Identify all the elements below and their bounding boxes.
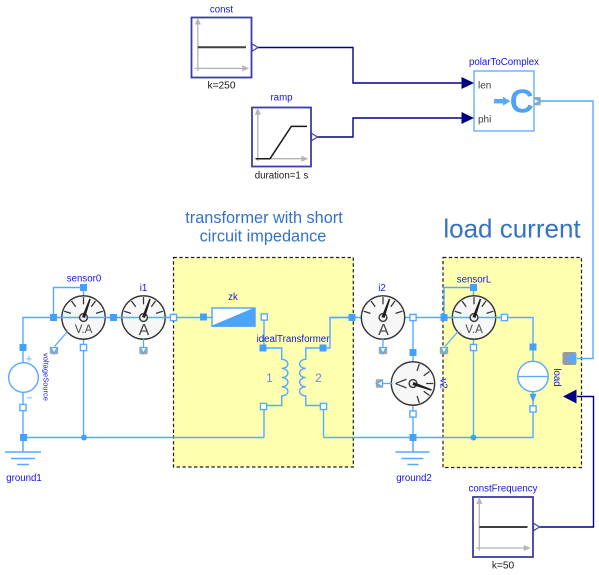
wire stub load bottom <box>532 392 534 407</box>
svg-text:i2: i2 <box>378 283 386 294</box>
junction v2/ground2 <box>410 434 417 441</box>
wire stub v2 bottom <box>412 404 414 411</box>
svg-text:idealTransformer: idealTransformer <box>257 334 331 345</box>
sensorL complex output connector <box>440 347 448 354</box>
svg-text:transformer with short: transformer with short <box>185 209 343 227</box>
svg-text:A: A <box>378 322 389 339</box>
wire sensorL bottom to rail <box>473 348 475 438</box>
block constFrequency <box>473 497 540 557</box>
svg-text:const: const <box>210 5 233 16</box>
svg-text:voltageSource: voltageSource <box>42 353 51 401</box>
svg-text:+: + <box>26 353 32 365</box>
pin transformer secondary bottom <box>320 403 326 409</box>
pin voltageSource + <box>20 344 27 351</box>
wire through i1 <box>114 317 175 319</box>
power sensor sensorL <box>452 296 495 339</box>
wire idealTransformer secondary to main row <box>325 318 352 349</box>
wire through sensorL <box>444 317 505 319</box>
junction sensorL/rail <box>471 435 477 441</box>
wire stub load top <box>532 347 534 362</box>
block polarToComplex U1 <box>474 71 534 131</box>
pin i2 left <box>349 314 356 321</box>
svg-text:C: C <box>510 83 534 120</box>
wire transformer primary bottom to rail <box>263 406 265 438</box>
load frequency input connector <box>563 390 577 404</box>
ground2 <box>396 438 430 465</box>
junction sensor0/rail <box>81 435 87 441</box>
load complex input connector <box>563 352 577 365</box>
wire v2 top <box>412 318 414 353</box>
pin sensorL bottom <box>470 344 476 350</box>
svg-text:i1: i1 <box>140 283 148 294</box>
wire stub sensor0 bottom <box>83 338 85 345</box>
svg-text:2: 2 <box>315 371 322 385</box>
i1 complex output connector <box>139 347 147 354</box>
v2 complex output connector <box>376 379 383 387</box>
wire polarToComplex to load complex input <box>540 101 594 359</box>
sensor0 complex output lead <box>55 332 68 347</box>
wire sensorL voltage tap <box>444 288 474 318</box>
wire main row left: voltageSource to zk <box>23 318 212 348</box>
svg-text:zk: zk <box>228 292 238 303</box>
pin voltageSource - <box>20 404 26 410</box>
wire stub sensorL top <box>473 288 475 297</box>
pin zk left <box>200 314 207 321</box>
svg-text:k=250: k=250 <box>207 81 235 92</box>
svg-text:phi: phi <box>478 115 491 126</box>
svg-text:sensorL: sensorL <box>457 275 492 286</box>
input connector len <box>462 77 475 89</box>
wire stub voltageSource bottom <box>22 392 24 405</box>
load current source <box>518 361 548 402</box>
wire bottom rail left <box>23 437 264 439</box>
pin i1 right <box>170 314 176 320</box>
svg-text:len: len <box>478 81 491 92</box>
svg-text:A: A <box>139 322 150 339</box>
junction voltageSource/ground1 <box>20 434 27 441</box>
svg-text:V.A: V.A <box>465 323 483 336</box>
svg-text:circuit impedance: circuit impedance <box>200 228 327 246</box>
wire stub sensor0 top <box>83 288 85 297</box>
wire v2 bottom to rail <box>412 415 414 438</box>
wire voltageSource bottom to rail <box>22 408 24 438</box>
wire constFrequency to load frequency input <box>540 397 594 528</box>
wire zk to idealTransformer primary <box>263 318 265 349</box>
pin sensorL top <box>470 284 477 291</box>
svg-text:load current: load current <box>443 214 581 244</box>
voltmeter v2 (rotated 90) <box>391 362 434 405</box>
yellow box: transformer with short circuit impedance <box>174 258 354 468</box>
svg-text:−: − <box>26 393 32 405</box>
sensor0 complex output connector <box>50 347 58 354</box>
pin v2 bottom <box>410 411 416 417</box>
i2 complex output connector <box>379 347 387 354</box>
v2 complex output lead <box>383 383 393 385</box>
pin zk right <box>261 314 267 320</box>
ground1 <box>5 438 41 465</box>
svg-text:V: V <box>392 378 409 389</box>
pin sensor0 left <box>50 314 57 321</box>
pin sensorL left <box>441 314 448 321</box>
impedance zk <box>212 308 255 326</box>
sensorL complex output lead <box>445 332 458 347</box>
svg-text:ramp: ramp <box>270 93 292 104</box>
pin transformer secondary top <box>320 345 327 352</box>
i1 complex output lead <box>143 339 145 347</box>
block ramp <box>252 108 318 167</box>
pin sensor0 top <box>80 284 87 291</box>
secondary winding 2 <box>300 348 321 406</box>
primary winding 1 <box>266 348 288 406</box>
ammeter i2 <box>361 296 404 339</box>
wire bottom rail right <box>324 409 534 438</box>
svg-text:duration=1 s: duration=1 s <box>255 171 309 182</box>
output connector polarToComplex <box>534 97 541 105</box>
svg-text:V.A: V.A <box>75 323 93 336</box>
svg-text:polarToComplex: polarToComplex <box>469 57 539 68</box>
power sensor sensor0 <box>62 296 105 339</box>
wire transformer secondary bottom to rail <box>323 406 325 438</box>
yellow box: load current <box>443 258 582 468</box>
svg-text:sensor0: sensor0 <box>67 274 102 285</box>
input connector phi <box>462 112 475 124</box>
wire ramp to polarToComplex <box>318 118 463 137</box>
svg-text:ground2: ground2 <box>396 473 432 484</box>
pin sensorL right <box>501 314 507 320</box>
wire stub v2 top <box>412 353 414 364</box>
svg-text:ground1: ground1 <box>6 473 42 484</box>
pin v2 top <box>410 349 417 356</box>
svg-text:constFrequency: constFrequency <box>469 484 538 495</box>
wire const to polarToComplex <box>258 48 462 84</box>
pin i2 right <box>410 314 416 320</box>
svg-text:v2: v2 <box>438 378 449 388</box>
wire sensor0 voltage tap <box>54 288 84 318</box>
wire sensor0 bottom to rail <box>83 348 85 438</box>
svg-text:1: 1 <box>266 371 273 385</box>
wire through sensor0 <box>53 317 114 319</box>
block const <box>192 18 259 78</box>
wire stub voltageSource top <box>22 348 24 364</box>
pin transformer primary bottom <box>260 403 266 409</box>
i2 complex output lead <box>382 339 384 347</box>
voltageSource V1 <box>9 353 39 404</box>
pin sensor0 bottom <box>80 344 86 350</box>
wire stub sensorL bottom <box>473 338 475 345</box>
svg-text:k=50: k=50 <box>492 561 515 572</box>
svg-text:load: load <box>551 368 562 386</box>
pin transformer primary top <box>260 345 267 352</box>
wire main row right: i2 to load <box>330 318 533 348</box>
junction sensor0/i1 <box>110 314 117 321</box>
ammeter i1 <box>122 296 165 339</box>
pin load bottom <box>530 406 536 412</box>
pin load top <box>530 344 537 351</box>
